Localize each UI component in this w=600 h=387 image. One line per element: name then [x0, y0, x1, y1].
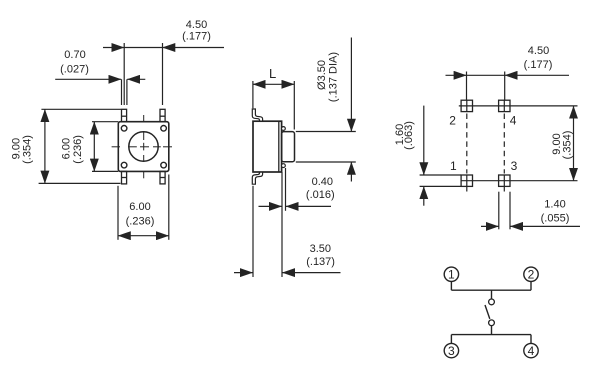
- centerline horizontal (top view): [112, 146, 172, 148]
- dimension L: [253, 81, 294, 130]
- pad 3 (bottom-right): [499, 175, 510, 186]
- wire bottom bus: [451, 334, 531, 336]
- wire top bus: [451, 289, 531, 291]
- svg-text:(.354): (.354): [22, 135, 34, 164]
- svg-text:(.016): (.016): [306, 189, 335, 201]
- svg-text:0.70: 0.70: [64, 49, 85, 61]
- body outline (side view): [253, 121, 282, 172]
- svg-text:6.00: 6.00: [61, 138, 73, 159]
- wire bottom bus to terminal 3: [450, 335, 452, 344]
- dimension 6.00/.236 inner left: [92, 122, 118, 172]
- corner rivet bottom-right: [161, 162, 167, 168]
- wire bottom bus to terminal 4: [530, 335, 532, 344]
- svg-text:(.027): (.027): [60, 63, 89, 75]
- corner rivet bottom-left: [121, 162, 127, 168]
- pad 3 vertical bar: [503, 175, 505, 192]
- dimension 3.50/.137 body depth: [234, 186, 341, 277]
- svg-text:1.40: 1.40: [544, 198, 565, 210]
- dimension 9.00/.354 right: [573, 106, 575, 181]
- dimension 9.00/.354 left: [39, 109, 121, 183]
- dashed centerline right column: [503, 114, 505, 174]
- pad 1 (bottom-left): [461, 175, 472, 186]
- svg-text:2: 2: [528, 268, 535, 282]
- pin bottom-right: [160, 171, 165, 184]
- plunger (side view): [282, 132, 295, 162]
- dimension 1.60/.063 pad height: [420, 106, 462, 206]
- svg-text:(.354): (.354): [562, 131, 574, 160]
- centerline vertical (top view): [143, 115, 145, 178]
- svg-text:(.236): (.236): [72, 135, 84, 164]
- svg-text:4: 4: [528, 344, 535, 358]
- dimension 4.50/.177 pad pitch: [446, 72, 570, 101]
- pad 4 vertical bar: [503, 100, 505, 111]
- bottom row centerline: [461, 180, 577, 182]
- terminal 4 circle: [524, 343, 538, 357]
- pin top-right: [160, 109, 165, 121]
- lead bottom (bent): [252, 172, 262, 184]
- cover plate line: [278, 121, 280, 172]
- svg-text:0.40: 0.40: [312, 176, 333, 188]
- dashed centerline left column: [466, 114, 468, 174]
- dimension 4.50/.177 top of left view: [103, 43, 224, 105]
- pad 2 vertical bar: [466, 100, 468, 111]
- wire contact to bottom bus: [491, 326, 493, 335]
- pin top-left: [122, 109, 127, 121]
- svg-text:(.063): (.063): [403, 121, 415, 150]
- wire terminal1 to top bus: [450, 281, 452, 290]
- svg-text:2: 2: [449, 113, 456, 127]
- contact circle upper: [489, 299, 495, 305]
- dimension 0.40/.016: [259, 168, 332, 277]
- svg-text:6.00: 6.00: [129, 201, 150, 213]
- dimension 6.00/.236 bottom of left view: [118, 175, 169, 240]
- actuator button circle: [129, 132, 158, 161]
- svg-text:3: 3: [511, 159, 518, 173]
- svg-text:3.50: 3.50: [310, 243, 331, 255]
- svg-text:4.50: 4.50: [528, 45, 549, 57]
- terminal 2 circle: [524, 267, 538, 281]
- wire top bus to contact: [491, 290, 493, 299]
- switch lever: [485, 305, 490, 319]
- svg-text:(.177): (.177): [524, 59, 553, 71]
- svg-text:1: 1: [450, 159, 457, 173]
- pin bottom-left: [122, 171, 127, 184]
- contact circle lower: [489, 320, 495, 326]
- top row centerline: [459, 105, 578, 107]
- clip bump top: [282, 127, 286, 131]
- pad 1 vertical bar: [466, 175, 468, 192]
- dimension 1.40/.055 pad width: [481, 192, 580, 230]
- clip bump bottom: [282, 164, 286, 168]
- svg-text:4.50: 4.50: [186, 19, 207, 31]
- wire terminal2 to top bus: [530, 281, 532, 290]
- body outline (top view): [118, 122, 169, 172]
- lead top (bent): [252, 109, 262, 121]
- svg-text:1: 1: [448, 268, 455, 282]
- corner rivet top-right: [161, 126, 167, 132]
- svg-text:(.177): (.177): [182, 31, 211, 43]
- svg-text:(.236): (.236): [126, 215, 155, 227]
- pad 4 (top-right): [499, 100, 510, 111]
- dimension 0.70/.027 pin width: [55, 79, 145, 105]
- terminal 1 circle: [444, 267, 458, 281]
- svg-text:4: 4: [510, 113, 517, 127]
- svg-text:Ø3.50: Ø3.50: [316, 60, 328, 90]
- terminal 3 circle: [444, 343, 458, 357]
- svg-text:(.137): (.137): [306, 256, 335, 268]
- pad 2 (top-left): [461, 100, 472, 111]
- svg-text:3: 3: [448, 344, 455, 358]
- dimension Ø3.50/.137 DIA plunger: [296, 38, 356, 182]
- svg-text:L: L: [269, 66, 276, 81]
- svg-text:(.055): (.055): [541, 212, 570, 224]
- svg-text:(.137 DIA): (.137 DIA): [328, 52, 340, 102]
- corner rivet top-left: [121, 126, 127, 132]
